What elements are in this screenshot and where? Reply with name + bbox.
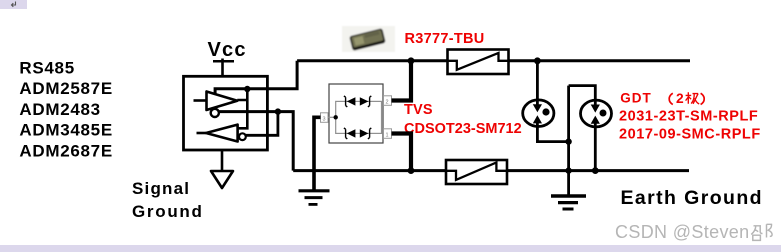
power Vcc stem	[213, 59, 234, 77]
svg-text:2031-23T-SM-RPLF: 2031-23T-SM-RPLF	[619, 108, 758, 124]
selection highlight top-left	[0, 0, 27, 9]
label CDSOT23-SM712	[404, 121, 522, 137]
label Signal Ground	[132, 179, 204, 221]
junction bottom rail TVS	[408, 167, 415, 174]
svg-text:RS485: RS485	[19, 59, 74, 78]
wire line A out of box	[215, 61, 297, 95]
svg-text:2: 2	[386, 100, 389, 106]
svg-text:CSDN @Steven: CSDN @Steven	[615, 222, 750, 242]
TVS inner net	[336, 101, 382, 133]
wire top rail (node A)	[297, 59, 690, 62]
wire receiver bubble to node B	[246, 112, 278, 136]
GDT1 tube	[523, 61, 569, 142]
label ADM3485E	[19, 121, 112, 140]
svg-text:Signal: Signal	[132, 179, 190, 198]
driver bubble	[211, 109, 219, 117]
pilcrow return mark	[12, 2, 16, 7]
label ADM2587E	[19, 79, 112, 98]
wire bottom rail (node B)	[293, 169, 689, 172]
TVS diode bottom-right	[360, 128, 372, 139]
svg-text:ADM2687E: ADM2687E	[19, 141, 112, 160]
svg-text:ADM2587E: ADM2587E	[19, 79, 112, 98]
wire line B out of box	[219, 112, 293, 171]
label TVS	[404, 102, 433, 118]
wire earth ground vertical	[567, 86, 570, 195]
junction earth vertical bottom rail	[565, 167, 571, 173]
watermark CSDN	[615, 222, 772, 242]
junction top rail TVS	[408, 57, 415, 64]
label 2031-23T-SM-RPLF	[619, 108, 758, 124]
label GDT (2ji)	[620, 90, 704, 106]
TBU resistor top R3777	[448, 50, 509, 75]
TVS junction pin3 net	[334, 115, 338, 119]
TVS U2 package box	[329, 84, 383, 143]
svg-text:2: 2	[676, 91, 684, 106]
label Vcc	[208, 39, 247, 61]
transceiver U1 box	[184, 76, 268, 150]
label Earth Ground	[621, 187, 763, 209]
ground symbol TVS	[299, 191, 330, 205]
svg-text:GDT: GDT	[620, 90, 652, 105]
svg-text:Vcc: Vcc	[208, 39, 247, 61]
selection highlight bottom strip	[0, 245, 781, 252]
wire TVS pin1 to bottom rail	[392, 134, 412, 171]
driver buffer D1	[194, 92, 238, 111]
svg-text:2017-09-SMC-RPLF: 2017-09-SMC-RPLF	[619, 126, 761, 142]
chip photo	[342, 26, 395, 52]
wire TVS pin2 to top rail	[392, 61, 412, 101]
TVS pin 2	[384, 96, 392, 106]
TVS diode top-right	[360, 96, 372, 107]
TVS pin 1	[384, 129, 392, 139]
svg-text:ADM3485E: ADM3485E	[19, 121, 112, 140]
TVS diode bottom-left	[344, 128, 356, 139]
receiver bubble	[239, 133, 246, 140]
junction GDT2 bottom rail	[592, 167, 599, 174]
label R3777-TBU	[405, 31, 485, 47]
svg-text:CDSOT23-SM712: CDSOT23-SM712	[404, 121, 522, 137]
label ADM2687E	[19, 141, 112, 160]
wire driver output to node A vertical	[237, 89, 247, 128]
TBU resistor bottom R3777	[446, 160, 507, 184]
svg-text:TVS: TVS	[404, 102, 433, 118]
svg-text:ADM2483: ADM2483	[19, 100, 100, 119]
svg-text:1: 1	[386, 133, 389, 139]
TVS pin 3	[321, 113, 336, 123]
glyph ji (CJK)	[686, 92, 700, 104]
label 2017-09-SMC-RPLF	[619, 126, 761, 142]
junction top rail GDT1	[534, 57, 541, 64]
wire TVS pin3 to ground	[314, 117, 321, 190]
junction GDT1 to ground wire	[565, 138, 571, 144]
GDT2 tube	[569, 86, 612, 171]
label RS485	[19, 59, 74, 78]
svg-text:3: 3	[323, 117, 326, 123]
label ADM2483	[19, 100, 100, 119]
TVS diode top-left	[344, 96, 356, 107]
earth ground symbol	[551, 196, 586, 209]
glyph shao (CJK)	[751, 224, 772, 240]
junction node B	[275, 108, 281, 114]
svg-text:Earth Ground: Earth Ground	[621, 187, 763, 209]
svg-text:R3777-TBU: R3777-TBU	[405, 31, 485, 47]
svg-text:Ground: Ground	[132, 202, 204, 221]
signal ground symbol	[211, 150, 233, 188]
junction node A	[244, 86, 250, 92]
receiver buffer D2	[197, 125, 238, 142]
